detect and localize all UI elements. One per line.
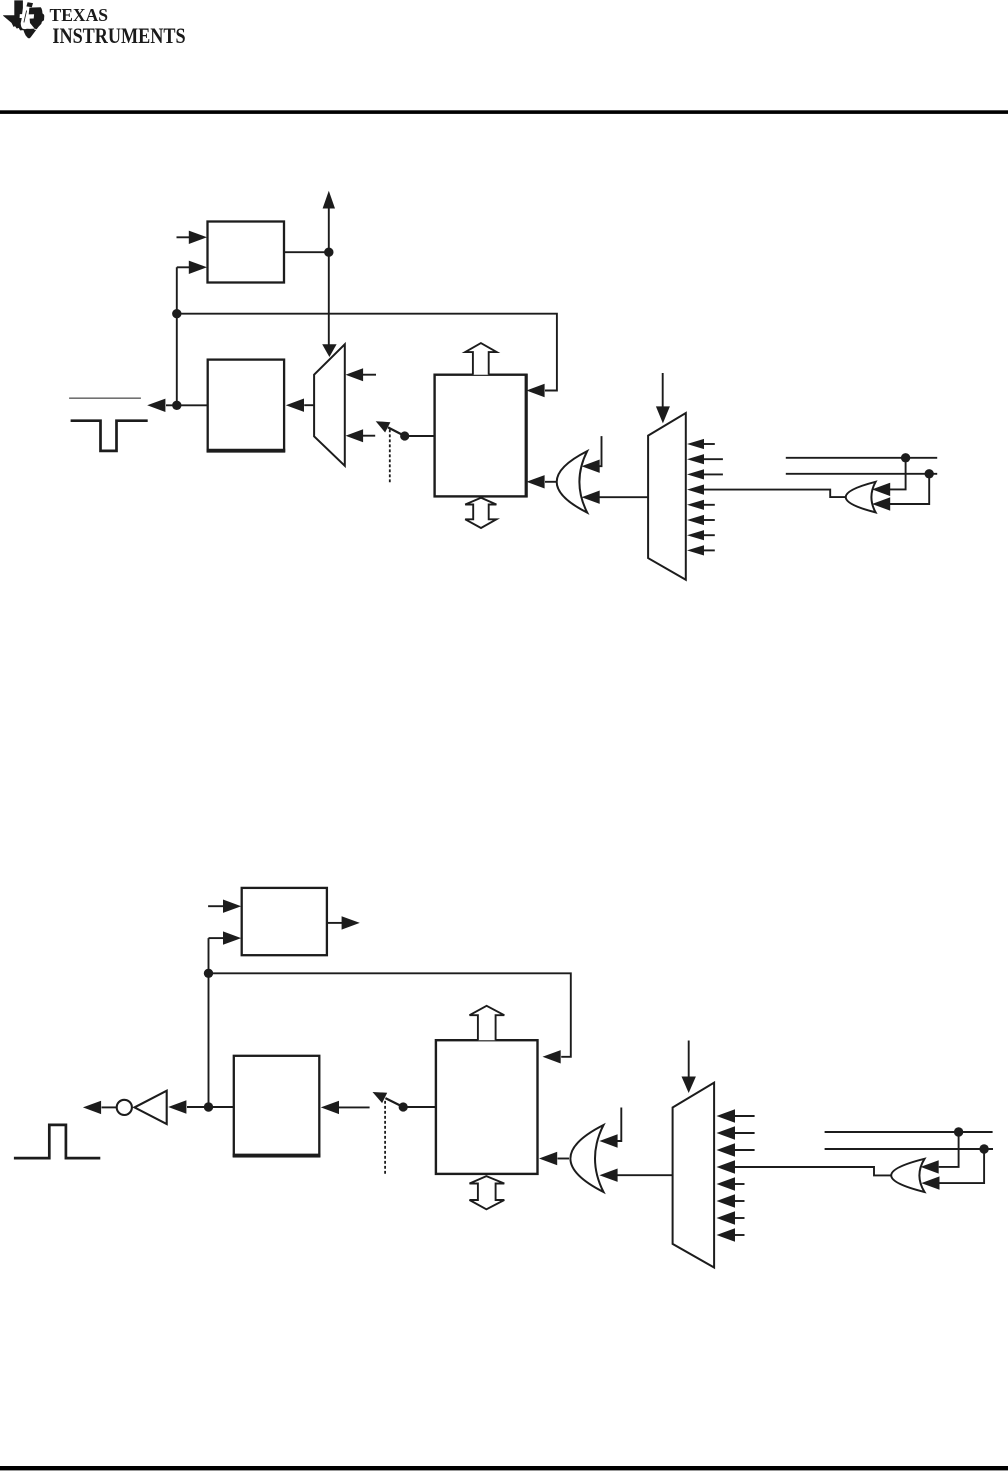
switch wiper line D2 — [385, 1098, 403, 1107]
waveform overline D1 — [69, 397, 141, 399]
arrowhead into timer block right edge D1 — [526, 384, 544, 397]
mux2 input row 1 D1 — [703, 443, 715, 445]
svg-text:INSTRUMENTS: INSTRUMENTS — [52, 23, 185, 48]
mux2 input row 7 D1 — [703, 534, 715, 536]
wire input B box D2 — [209, 937, 224, 939]
wire input A box D1 — [177, 236, 191, 238]
mux2 input row 5 D1 — [703, 504, 715, 506]
footer rule — [0, 1466, 1008, 1470]
arrowhead mux input 1 D1 — [346, 368, 364, 381]
arrowhead OR1 input 1 D1 — [582, 460, 600, 473]
arrowhead select mux3 D2 — [682, 1077, 696, 1094]
dotted select line D2 — [384, 1101, 386, 1176]
timer block thick right edge D1 — [525, 374, 528, 498]
mux3 input row 2 D2 — [734, 1132, 755, 1134]
mux2 input row 4 wire from OR2 D1 — [703, 490, 846, 498]
output unit box thick bottom edge D2 — [233, 1154, 321, 1157]
hollow data arrow up D2 — [470, 1006, 505, 1040]
mux3 input row 1 D2 — [734, 1115, 755, 1117]
mux2 input row 3 D1 — [703, 473, 723, 475]
wire vertical left rail D1 — [176, 267, 178, 405]
switch wiper line D1 — [388, 427, 405, 436]
arrowhead OR2 input 1 D1 — [872, 483, 890, 496]
wire OR4 input 1 D2 — [939, 1132, 959, 1167]
arrowhead OR3 output into timer block D2 — [539, 1152, 557, 1165]
mux3 input row 8 D2 — [734, 1234, 745, 1236]
arrowhead box3 output D2 — [342, 916, 360, 929]
mux3 input row 4 wire from OR4 D2 — [734, 1167, 892, 1175]
wire switch to timer block D2 — [403, 1106, 436, 1108]
wire OR3 input 2 from mux3 D2 — [618, 1174, 673, 1176]
node on line 1 D2 — [954, 1127, 963, 1136]
mux3 input row 7 D2 — [734, 1217, 745, 1219]
mux CCIS trapezoid D1 — [648, 413, 686, 580]
arrowhead into output unit D2 — [321, 1101, 339, 1114]
node on line 1 D1 — [901, 453, 910, 462]
output unit box D2 — [234, 1056, 319, 1157]
waveform pulse low D1 — [71, 421, 148, 451]
arrowhead input B box D1 — [189, 261, 207, 274]
wire OR3 input stub D2 — [618, 1108, 622, 1142]
timer block box D1 — [435, 375, 527, 497]
arrowhead OR4 input 2 D2 — [921, 1176, 939, 1189]
arrowhead inverter output D2 — [83, 1101, 101, 1114]
arrowhead into inverter D2 — [168, 1100, 186, 1113]
timer block box D2 — [436, 1040, 538, 1174]
wire input B box D1 — [177, 266, 190, 268]
wire EQU0 feedback horizontal D2 — [209, 973, 571, 1057]
hollow data arrow double bottom D2 — [470, 1176, 505, 1209]
arrowhead OR3 input 2 D2 — [599, 1169, 617, 1182]
bus line VCC D1 — [786, 473, 937, 475]
waveform pulse high D2 — [14, 1125, 100, 1158]
capture/compare block box D2 — [242, 888, 327, 955]
arrowhead OR3 input 1 D2 — [599, 1134, 617, 1147]
mux3 input row 6 D2 — [734, 1200, 745, 1202]
output unit box D1 — [208, 360, 284, 452]
inverter triangle D2 — [135, 1091, 167, 1124]
arrowhead input A box D1 — [189, 231, 207, 244]
arrowhead select mux2 D1 — [656, 406, 670, 423]
or gate OR1 D1 — [557, 451, 588, 512]
arrowhead feedback toward timer block D2 — [543, 1050, 561, 1063]
wire vertical left rail D2 — [208, 938, 210, 1107]
mux CCIS trapezoid D2 — [673, 1083, 715, 1268]
switch node D2 — [399, 1102, 408, 1111]
node EQU0 rail junction D2 — [204, 969, 213, 978]
arrowhead mux input 2 D1 — [346, 429, 364, 442]
mux3 input row 5 D2 — [734, 1183, 745, 1185]
wire OR1 input 2 from mux2 D1 — [600, 496, 649, 498]
wire OR3 output D2 — [558, 1158, 570, 1160]
arrowhead down into mux D1 — [322, 344, 336, 357]
switch wiper arrowhead D2 — [373, 1092, 388, 1103]
wire OR1 input stub D1 — [599, 436, 602, 466]
wire select into mux2 D1 — [662, 373, 664, 407]
arrowhead OR2 input 2 D1 — [872, 497, 890, 510]
switch node D1 — [400, 431, 409, 440]
hollow data arrow double bottom D1 — [465, 498, 496, 528]
output unit box thick bottom edge D1 — [207, 449, 286, 452]
arrowhead output left D1 — [147, 399, 165, 412]
node output rail junction D2 — [204, 1102, 213, 1111]
node on line 2 D1 — [925, 469, 934, 478]
or gate OR4 D2 — [891, 1159, 924, 1192]
wire into output unit right D2 — [339, 1106, 370, 1108]
inverter bubble D2 — [117, 1100, 132, 1115]
bus line GND D2 — [825, 1131, 993, 1133]
wire box3 output right D2 — [327, 922, 342, 924]
wire OR4 input 2 D2 — [940, 1149, 985, 1183]
wire vertical through node to mux D1 — [328, 209, 330, 345]
switch wiper arrowhead D1 — [376, 421, 391, 432]
hollow data arrow up D1 — [465, 343, 497, 375]
wire switch to timer block D1 — [405, 435, 435, 437]
wire EQU0 feedback horizontal D1 — [177, 314, 557, 391]
mux2 input row 8 D1 — [703, 549, 715, 551]
arrowhead up top D1 — [323, 191, 335, 209]
capture/compare block box D1 — [208, 222, 285, 283]
node EQU0 rail junction D1 — [172, 309, 181, 318]
header rule — [0, 110, 1008, 114]
wire input A box D2 — [208, 905, 223, 907]
arrowhead OR1 input 2 D1 — [582, 491, 600, 504]
wire node to output unit D2 — [209, 1106, 234, 1108]
mux2 input row 6 D1 — [703, 519, 715, 521]
arrowhead input B box D2 — [223, 931, 241, 944]
bus line GND D1 — [786, 457, 937, 459]
wire box1 output to node D1 — [284, 251, 329, 253]
wire mux output D1 — [304, 404, 314, 406]
arrowhead OR4 input 1 D2 — [921, 1160, 939, 1173]
wire OR2 input 2 D1 — [890, 474, 929, 504]
svg-text:TEXAS: TEXAS — [50, 5, 109, 25]
wire OR2 input 1 D1 — [890, 458, 906, 490]
or gate OR3 D2 — [570, 1125, 603, 1192]
mux2 input row 2 D1 — [703, 458, 723, 460]
dotted select line D1 — [389, 429, 391, 482]
wire select into mux3 D2 — [688, 1041, 690, 1078]
wire inverter output D2 — [102, 1106, 117, 1108]
node box1 output junction D1 — [324, 248, 333, 257]
node on line 2 D2 — [979, 1144, 988, 1153]
bus line VCC D2 — [825, 1148, 993, 1150]
wire output to left D1 — [166, 404, 208, 406]
wire into inverter D2 — [187, 1106, 204, 1108]
arrowhead input A box D2 — [223, 900, 241, 913]
wire mux input 2 D1 — [363, 435, 375, 437]
mux trapezoid D1 — [314, 344, 345, 466]
TI logo Texas map — [3, 0, 44, 38]
wire mux input 1 D1 — [363, 374, 376, 376]
or gate OR2 D1 — [846, 482, 876, 513]
node output rail junction D1 — [172, 401, 181, 410]
arrowhead OR1 output into timer block D1 — [526, 475, 544, 488]
wire OR1 output D1 — [545, 481, 558, 483]
mux3 input row 3 D2 — [734, 1149, 755, 1151]
arrowhead mux output into output unit D1 — [286, 399, 304, 412]
